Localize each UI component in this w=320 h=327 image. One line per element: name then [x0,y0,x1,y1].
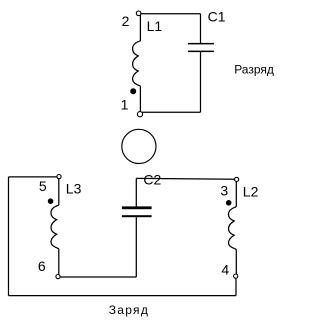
svg-text:2: 2 [122,13,130,29]
terminal 6 (open circle) [56,275,60,279]
wire: top loop right wire lower (from C1) [200,52,202,112]
svg-text:L3: L3 [66,181,82,197]
wire: top loop bottom wire [140,111,200,113]
inductor L2 (3-hump coil) [229,207,237,250]
wire: bottom loop bottom edge [9,295,237,297]
wire: top loop right wire upper (to C1) [200,14,202,43]
svg-text:3: 3 [220,182,228,198]
terminal at bottom-left of top loop (open circle) [137,112,142,117]
wire: L1 loop left wire lower segment [139,86,141,112]
wire: C2 branch lower segment [135,217,137,277]
svg-text:5: 5 [39,178,47,194]
node 1 polarity dot [130,88,136,94]
terminal 3 (open circle) [235,177,239,181]
capacitor C2 bottom plate [122,215,152,217]
svg-text:C2: C2 [143,172,161,188]
wire: L1 loop left wire upper segment [139,14,141,41]
wire: mid horizontal wire C2 to terminal 3 [136,177,236,180]
wire: from terminal 6 to C2 branch [58,276,136,278]
inductor L3 (3-hump coil) [51,205,59,249]
node 5 polarity dot [48,198,54,204]
wire: L2 branch upper segment [235,179,237,207]
capacitor C1 bottom plate [188,51,214,53]
coupling circle between circuits [122,129,156,163]
wire: C2 branch upper segment [135,178,137,206]
node 3 polarity dot [226,200,232,206]
terminal 2 (open circle) [136,11,141,16]
svg-text:1: 1 [121,97,129,113]
svg-text:6: 6 [38,258,46,274]
terminal 4 (open circle) [234,274,238,278]
wire: L1 top wire [139,13,201,15]
wire: L2 branch lower segment [235,249,237,276]
wire: bottom loop left edge [8,177,10,296]
svg-text:4: 4 [221,262,229,278]
terminal 5 (open circle) [57,175,61,179]
capacitor C2 top plate [122,206,152,209]
wire: bottom loop right edge lower segment [235,276,237,296]
svg-text:L2: L2 [243,183,259,199]
svg-text:Заряд: Заряд [109,303,149,317]
wire: bottom loop top-left wire [9,176,60,178]
capacitor C1 top plate [188,43,214,45]
wire: L3 branch upper segment [58,177,60,205]
svg-text:Разряд: Разряд [234,62,274,76]
svg-text:L1: L1 [147,18,163,34]
wire: L3 branch lower segment [58,249,60,277]
svg-text:C1: C1 [208,8,226,24]
inductor L1 (3-hump coil) [133,41,141,86]
